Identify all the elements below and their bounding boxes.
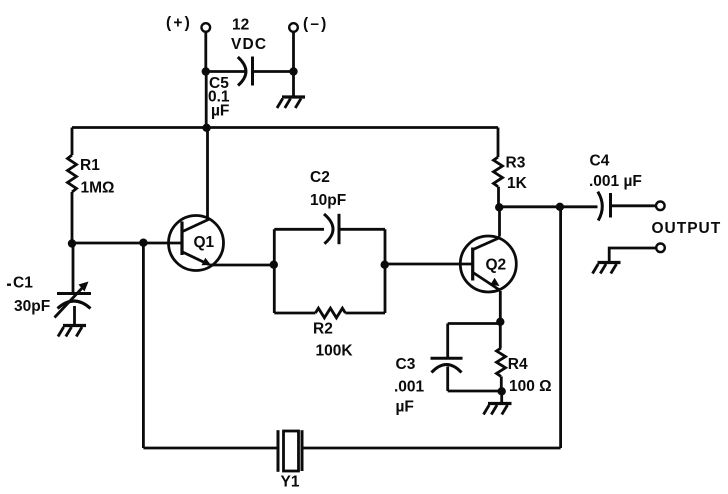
- svg-text:C3: C3: [396, 356, 416, 373]
- node R4/C3 ground junction: [498, 387, 506, 395]
- capacitor C4: [598, 192, 611, 221]
- wire output net to C4: [499, 205, 597, 208]
- resistor R3: [494, 157, 503, 187]
- svg-text:Q1: Q1: [194, 234, 215, 251]
- wire network left vertical: [273, 229, 276, 313]
- svg-text:(–): (–): [303, 16, 329, 33]
- wire output return to ground: [609, 248, 656, 262]
- svg-text:12: 12: [232, 17, 249, 34]
- svg-text:VDC: VDC: [231, 36, 267, 53]
- transistor Q2: [460, 236, 516, 292]
- svg-text:(+): (+): [166, 15, 192, 32]
- wire C3 top lead: [446, 324, 449, 358]
- svg-text:1K: 1K: [507, 175, 528, 192]
- svg-text:1MΩ: 1MΩ: [81, 180, 115, 197]
- wire C4 to output terminal: [611, 204, 657, 207]
- resistor R2: [315, 308, 345, 318]
- svg-text:30pF: 30pF: [14, 298, 50, 315]
- svg-text:R1: R1: [80, 157, 100, 174]
- wire Q2 emitter: [499, 291, 502, 322]
- terminal (+): [202, 23, 211, 32]
- svg-text:µF: µF: [396, 399, 414, 416]
- wire Q1 emitter to network: [209, 264, 273, 267]
- capacitor C5: [238, 57, 253, 86]
- wire ground stem: [500, 391, 503, 403]
- node network left junction: [270, 261, 278, 269]
- wire bottom bus right: [302, 447, 561, 450]
- wire Q2 collector: [498, 207, 501, 236]
- node top bus junction: [202, 124, 210, 132]
- node base/feedback junction: [139, 239, 147, 247]
- wire (+) terminal to C5 node: [204, 32, 207, 72]
- svg-text:10pF: 10pF: [310, 192, 346, 209]
- wire C5 left lead: [206, 70, 245, 73]
- wire C1 bottom lead: [73, 306, 76, 326]
- node junction C5 right: [289, 67, 297, 75]
- wire R3 top lead: [497, 128, 500, 158]
- transistor Q1: [169, 216, 224, 271]
- node junction C5 left: [202, 67, 210, 75]
- wire C3 bottom lead: [446, 367, 449, 392]
- wire R1 top lead: [71, 128, 74, 156]
- node network right junction: [381, 261, 389, 269]
- wire R4 top lead: [499, 322, 502, 348]
- wire C3/R4 bottom rail: [448, 390, 502, 393]
- label C1 30pF: [7, 275, 50, 315]
- wire R4 bottom lead: [500, 376, 503, 391]
- label 12 VDC: [231, 17, 267, 53]
- svg-text:OUTPUT: OUTPUT: [652, 220, 722, 237]
- label R1 1Mohm: [80, 157, 114, 197]
- svg-text:100 Ω: 100 Ω: [509, 378, 552, 395]
- crystal Y1: [278, 430, 302, 472]
- capacitor C1 variable: [55, 282, 92, 318]
- ground (C1): [58, 326, 86, 337]
- svg-text:R4: R4: [508, 356, 528, 373]
- terminal (-): [289, 23, 298, 32]
- ground (output return): [593, 263, 621, 274]
- svg-text:.001: .001: [394, 378, 425, 395]
- label R4 100ohm: [508, 356, 552, 395]
- label R2 100K: [313, 321, 353, 360]
- svg-text:µF: µF: [211, 103, 229, 120]
- label C5 0.1 uF: [208, 75, 230, 120]
- wire R1 bottom lead: [71, 192, 74, 244]
- svg-text:R3: R3: [506, 154, 526, 171]
- wire Q1 base net: [72, 242, 183, 245]
- wire network right vertical: [384, 229, 387, 313]
- wire top bus: [72, 126, 498, 129]
- terminal output hot: [656, 202, 665, 211]
- label C4 .001 uF: [589, 152, 642, 190]
- svg-text:C1: C1: [13, 275, 33, 292]
- svg-text:R2: R2: [313, 321, 333, 338]
- capacitor C2: [324, 214, 339, 244]
- wire C1 top lead: [72, 244, 75, 294]
- wire C5 right lead: [253, 70, 294, 73]
- terminal output return: [656, 244, 665, 253]
- wire Q2 base net: [385, 263, 474, 266]
- resistor R4: [497, 348, 506, 376]
- node Q2 emitter junction: [496, 318, 504, 326]
- svg-text:.001 µF: .001 µF: [589, 173, 642, 190]
- wire network top rail left: [274, 228, 324, 231]
- wire right drop vertical: [559, 207, 562, 448]
- ground (R4): [484, 404, 512, 415]
- capacitor C3: [431, 358, 463, 372]
- wire network top rail right: [339, 228, 385, 231]
- node output/right-drop junction: [556, 203, 564, 211]
- label C2 10pF: [310, 169, 346, 209]
- svg-text:Y1: Y1: [281, 474, 300, 491]
- label R3 1K: [506, 154, 528, 192]
- label C3 .001 uF: [394, 356, 425, 416]
- wire Q1 collector: [206, 128, 209, 220]
- node R1/C1/base junction: [68, 239, 76, 247]
- ground (minus terminal): [277, 97, 305, 108]
- svg-text:C4: C4: [590, 152, 610, 169]
- wire R3 bottom lead: [497, 187, 500, 208]
- wire (-) terminal down to ground: [292, 32, 295, 97]
- wire network bottom rail left: [274, 312, 315, 315]
- wire emitter junction to C3 branch: [448, 322, 501, 325]
- svg-text:C2: C2: [310, 169, 330, 186]
- wire C5 node down to top bus: [205, 72, 208, 128]
- wire network bottom rail right: [345, 312, 385, 315]
- wire bottom bus left: [143, 447, 278, 450]
- svg-text:Q2: Q2: [486, 257, 507, 274]
- node collector output junction: [495, 203, 503, 211]
- resistor R1: [68, 155, 77, 192]
- svg-text:100K: 100K: [316, 343, 354, 360]
- wire feedback left vertical: [142, 243, 145, 448]
